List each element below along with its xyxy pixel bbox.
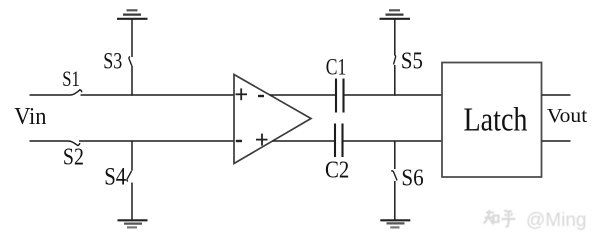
wire S4 branch upper xyxy=(131,141,133,171)
svg-text:Latch: Latch xyxy=(464,101,528,138)
wire Vout bottom stub xyxy=(542,140,571,142)
wire top input right segment xyxy=(81,94,235,96)
wire top output C1 to latch xyxy=(344,94,442,96)
capacitor C2 xyxy=(325,124,349,184)
svg-text:S3: S3 xyxy=(103,49,122,75)
switch S4 xyxy=(104,162,131,191)
switch S3 xyxy=(103,49,132,75)
switch S1 xyxy=(62,66,81,95)
svg-text:Vout: Vout xyxy=(547,105,588,127)
wire top input left segment xyxy=(30,94,71,96)
watermark 知乎 @Ming xyxy=(484,210,587,231)
switch S5 xyxy=(394,48,423,75)
latch U2 xyxy=(442,63,542,178)
svg-text:S6: S6 xyxy=(401,164,423,191)
wire bottom input left segment xyxy=(30,140,69,142)
op-amp U1 minus output sign xyxy=(258,95,264,97)
op-amp U1 plus output sign xyxy=(256,134,268,146)
capacitor C1 xyxy=(326,55,347,113)
svg-text:@Ming: @Ming xyxy=(526,210,586,231)
wire top output to C1 xyxy=(270,94,336,96)
svg-text:C2: C2 xyxy=(325,157,349,184)
wire bottom output C2 to latch xyxy=(343,140,442,142)
op-amp U1 plus input sign xyxy=(236,88,248,100)
op-amp U1 minus input sign xyxy=(236,140,242,142)
ground G4 (bottom right) xyxy=(380,220,410,227)
wire S6 branch lower xyxy=(394,181,396,220)
svg-text:S1: S1 xyxy=(62,66,80,91)
wire S4 branch lower xyxy=(131,183,133,221)
wire S3 branch upper xyxy=(131,20,133,58)
wire S5 branch lower xyxy=(394,65,396,96)
switch S2 xyxy=(63,141,84,171)
wire bottom output to C2 xyxy=(273,140,335,142)
wire S6 branch upper xyxy=(394,141,396,169)
wire bottom input right segment xyxy=(79,140,234,142)
switch S6 xyxy=(391,164,423,191)
ground G3 (bottom left) xyxy=(118,220,148,227)
ground G2 (top right, inverted) xyxy=(380,10,411,18)
wire S3 branch lower xyxy=(131,66,133,96)
svg-text:Vin: Vin xyxy=(14,104,46,130)
ground G1 (top left, inverted) xyxy=(117,10,148,18)
svg-text:S2: S2 xyxy=(63,145,84,171)
svg-text:S5: S5 xyxy=(401,48,423,75)
wire Vout top stub xyxy=(542,94,571,96)
svg-text:C1: C1 xyxy=(326,55,347,81)
op-amp U1 xyxy=(234,75,311,164)
svg-text:S4: S4 xyxy=(104,162,126,191)
wire S5 branch upper xyxy=(394,20,396,56)
